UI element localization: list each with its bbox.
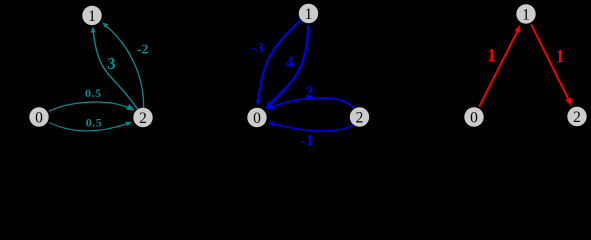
svg-text:2: 2 [573, 109, 581, 126]
svg-text:0.5: 0.5 [86, 116, 103, 130]
edge 2->0 weight -1 (lower arc, graph 2) [271, 123, 353, 131]
node 1 (graph 2) [299, 4, 318, 23]
svg-text:0: 0 [35, 109, 43, 126]
node 0 (graph 1) [29, 107, 48, 126]
node 1 (graph 1) [82, 6, 101, 25]
svg-text:1: 1 [88, 8, 96, 25]
node 0 (graph 3) [464, 107, 483, 126]
svg-text:0: 0 [470, 109, 478, 126]
svg-text:0: 0 [253, 110, 261, 127]
svg-text:1: 1 [305, 6, 313, 23]
svg-text:4: 4 [286, 54, 294, 71]
edge 0->2 weight 0.5 (lower arc, graph 1) [49, 122, 129, 130]
svg-text:1: 1 [556, 46, 565, 66]
edge 0->1 weight 1 (graph 3) [479, 28, 519, 106]
node 1 (graph 3) [516, 4, 535, 23]
svg-text:-2: -2 [137, 41, 148, 56]
svg-text:0.5: 0.5 [85, 86, 102, 100]
node 0 (graph 2) [247, 108, 266, 127]
node 2 (graph 1) [133, 108, 152, 127]
edge 2->0 weight 2 (upper arc, graph 2) [270, 98, 354, 108]
svg-text:1: 1 [487, 45, 496, 65]
node 2 (graph 2) [350, 107, 369, 126]
edge 1->0 weight 4 (right arc, graph 2) [268, 25, 308, 106]
svg-text:-1: -1 [301, 133, 314, 150]
edge 0->2 weight 0.5 (upper arc, graph 1) [49, 102, 131, 111]
edge 1->0 weight -3 (left arc, graph 2) [258, 20, 301, 102]
svg-text:2: 2 [305, 84, 313, 101]
svg-text:1: 1 [522, 6, 530, 23]
edge 1->2 weight 1 (graph 3) [531, 24, 570, 102]
svg-text:3: 3 [107, 54, 115, 73]
svg-text:2: 2 [139, 110, 147, 127]
svg-text:2: 2 [356, 109, 364, 126]
edge 2->1 weight 3 (left arc, graph 1) [93, 29, 137, 109]
svg-text:-3: -3 [251, 41, 264, 57]
node 2 (graph 3) [567, 107, 586, 126]
edge 2->1 weight -2 (right arc, graph 1) [104, 24, 143, 107]
